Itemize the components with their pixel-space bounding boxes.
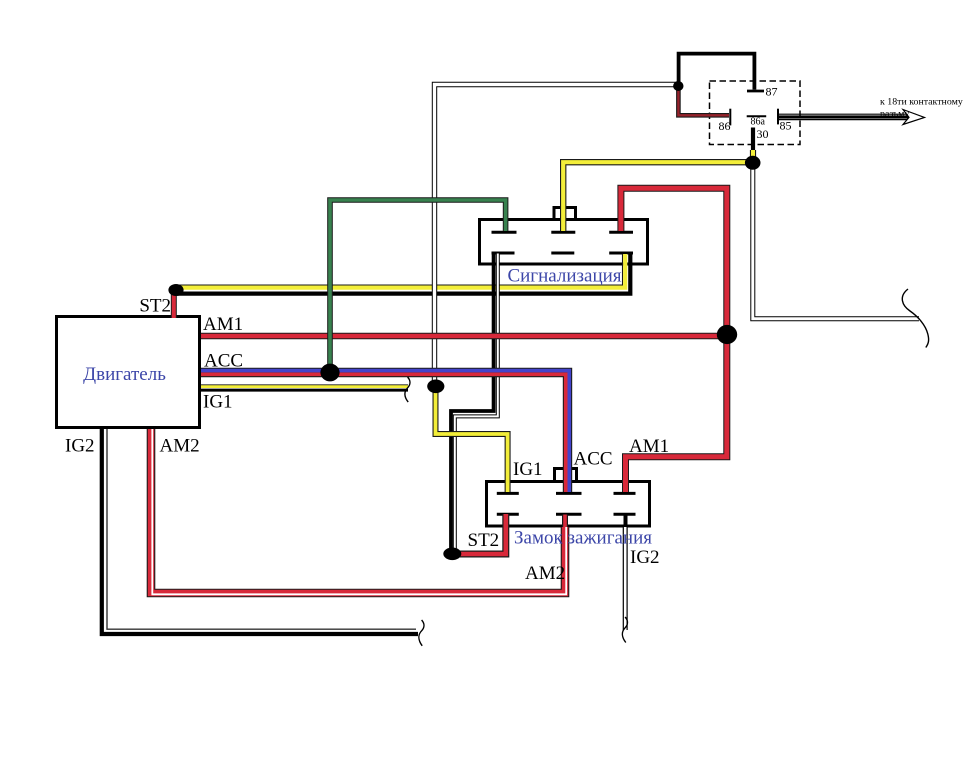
svg-text:AM2: AM2 (525, 563, 565, 584)
wire: white wire lock IG2 down to break (623, 527, 628, 630)
relay pin 86 tick (729, 109, 731, 126)
lock pin contact bottom-middle (556, 513, 582, 516)
svg-text:ST2: ST2 (468, 530, 500, 551)
relay pin 86a bar (747, 115, 767, 117)
wire: red AM1 from engine to junction (201, 333, 727, 340)
svg-text:IG2: IG2 (65, 436, 95, 457)
wire: red loop alarm top-right to lock AM1 (621, 188, 727, 492)
wire: thick black from alarm bottom-left contact down to ST2 terminal (451, 254, 494, 551)
wire: yellow from alarm top-middle to relay junction (563, 162, 750, 231)
svg-text:к 18ти контактному: к 18ти контактному (880, 97, 963, 108)
svg-text:ST2: ST2 (139, 296, 171, 317)
terminal node at ST2 wire end (443, 548, 461, 561)
svg-text:86a: 86a (751, 117, 766, 128)
svg-text:Замок зажигания: Замок зажигания (514, 528, 652, 549)
wire: black stub pin 30 (751, 128, 755, 155)
wire: yellow stub to pin 30 (750, 150, 756, 162)
svg-text:Двигатель: Двигатель (83, 364, 166, 385)
wire: red AM2 from lock bottom-middle to engine (151, 429, 566, 594)
svg-text:IG1: IG1 (203, 392, 233, 413)
svg-text:ACC: ACC (204, 351, 243, 372)
alarm pin contact bottom-middle (551, 252, 574, 255)
wire: ACC blue+red pair from engine to lock (201, 371, 569, 492)
wire: green from alarm top-left across to ACC junction (330, 200, 506, 367)
svg-text:IG1: IG1 (513, 459, 543, 480)
alarm pin contact top-middle (551, 231, 575, 234)
alarm pin contact bottom-left (492, 252, 515, 255)
svg-text:87: 87 (766, 85, 778, 99)
break squiggle at lock IG2 (622, 617, 627, 643)
arrow to 18-pin connector (778, 110, 925, 125)
break squiggle at engine IG2 (419, 620, 424, 646)
wire: dark red from junction to pin 86 (678, 88, 729, 115)
ignition lock block U3 (Замок зажигания) (487, 482, 650, 527)
wire: black link from junction to pin 87 (679, 54, 755, 90)
alarm pin contact bottom-right (609, 252, 633, 255)
relay K1 dashed outline (710, 81, 801, 145)
svg-text:30: 30 (757, 127, 769, 141)
lock pin contact top-middle (556, 492, 582, 495)
junction node at yellow / white wires (427, 380, 444, 394)
alarm block U2 (Сигнализация) (480, 220, 648, 265)
svg-text:разъму: разъму (880, 109, 909, 120)
break squiggle at IG1 (405, 377, 410, 402)
wire: yellow ST2 run with black shadow (alarm bottom-right to engine ST2 junction) (176, 254, 630, 294)
wire: black IG2 from engine down and right to break (102, 429, 418, 634)
junction node at relay pin 87 / 86 (673, 81, 683, 91)
lock pin contact bottom-right (614, 513, 636, 516)
svg-text:86: 86 (719, 119, 731, 133)
junction node at relay pin 30 (745, 156, 761, 170)
lock pin contact top-left (497, 492, 519, 495)
wire: red ST2 from terminal dot to lock bottom-left (452, 514, 506, 554)
junction node at ACC / green (320, 364, 339, 382)
wire: red ST2 stub into engine (171, 294, 177, 318)
engine block U1 (Двигатель) (57, 317, 200, 428)
svg-text:85: 85 (780, 119, 792, 133)
junction node at ST2 / yellow (168, 284, 183, 296)
wire: yellow IG1 from engine to break (201, 385, 408, 390)
junction node at AM1 / red loop (717, 325, 737, 344)
wire: yellow from junction node down to lock IG1 contact (436, 389, 508, 492)
relay pin 87 tick (747, 90, 764, 93)
wire: black stub lock IG2 (624, 515, 628, 529)
ignition lock connector notch (555, 469, 577, 482)
svg-text:ACC: ACC (574, 449, 613, 470)
wire: white wire alongside black to ST2 terminal (455, 254, 498, 551)
break squiggle at white harness wire (902, 289, 928, 348)
alarm pin contact top-right (609, 231, 633, 234)
relay pin 85 tick (777, 109, 779, 125)
svg-text:Сигнализация: Сигнализация (507, 266, 621, 287)
alarm block connector notch (554, 208, 576, 220)
svg-text:AM2: AM2 (160, 436, 200, 457)
lock pin contact bottom-left (497, 513, 519, 516)
svg-text:AM1: AM1 (203, 314, 243, 335)
svg-text:IG2: IG2 (630, 547, 660, 568)
wire: white wire from relay junction down-left to yellow junction node (435, 85, 678, 384)
svg-text:AM1: AM1 (629, 436, 669, 457)
alarm pin contact top-left (492, 231, 517, 234)
wire: white wire from relay junction down to break (to 18-pin harness) (753, 166, 919, 319)
lock pin contact top-right (614, 492, 636, 495)
